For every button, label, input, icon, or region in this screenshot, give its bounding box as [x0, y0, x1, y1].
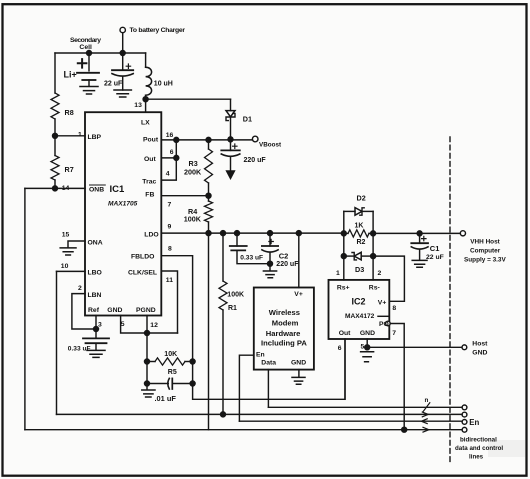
svg-text:LBP: LBP [88, 134, 102, 141]
svg-text:220 uF: 220 uF [244, 157, 267, 164]
op-amp U1 / IC1 MAX1705 box [85, 112, 161, 315]
op-amp U2 / IC2 MAX4172 box [329, 280, 390, 339]
node junction LBP [53, 133, 58, 138]
svg-text:1: 1 [336, 270, 340, 277]
resistor R2 1K [344, 230, 373, 237]
svg-text:5: 5 [121, 321, 125, 328]
capacitor 0.33uF (Ref) [83, 338, 109, 350]
svg-text:Ref: Ref [88, 307, 100, 314]
svg-text:PO: PO [379, 321, 389, 328]
node junction 22uF [120, 51, 125, 56]
resistor R3 200K [205, 140, 213, 196]
svg-text:FB: FB [145, 192, 154, 199]
node junction R3 top [206, 137, 211, 142]
svg-text:LDO: LDO [144, 231, 158, 238]
svg-text:Wireless: Wireless [269, 308, 300, 317]
wire LBO line B [57, 413, 463, 415]
svg-text:n: n [425, 397, 429, 404]
svg-text:5: 5 [361, 343, 365, 350]
wire pin14 ONB [25, 187, 85, 189]
wire ONB left rail down [24, 188, 26, 429]
watermark box [488, 440, 525, 457]
inductor L1 10uH [146, 53, 152, 99]
wire Rs+ pin1 [343, 256, 345, 280]
svg-text:Trac: Trac [142, 178, 156, 185]
node junction cap .01 right [190, 381, 195, 386]
wire pin2 LBN [72, 294, 96, 329]
svg-text:En: En [469, 418, 479, 427]
svg-text:2: 2 [378, 270, 382, 277]
capacitor C1 22uF [411, 233, 428, 260]
wire pin10 LBO [57, 270, 86, 272]
resistor R8 [51, 53, 59, 136]
svg-text:6: 6 [170, 149, 174, 156]
node terminal host GND [462, 345, 467, 350]
svg-text:.01 uF: .01 uF [155, 394, 177, 403]
svg-text:200K: 200K [184, 168, 202, 177]
svg-text:0.33 uF: 0.33 uF [240, 255, 263, 262]
node terminal line B [462, 412, 467, 417]
svg-text:6: 6 [338, 345, 342, 352]
wire pin6 Out [161, 157, 176, 159]
svg-text:14: 14 [62, 185, 70, 192]
node junction IC2 GND [365, 345, 370, 350]
ground C2 [263, 271, 276, 278]
svg-text:100K: 100K [184, 214, 202, 223]
node junction C2/0.33uF [268, 261, 273, 266]
node junction D3 left [341, 254, 346, 259]
node: To battery Charger terminal [120, 27, 125, 32]
svg-text:12: 12 [150, 322, 158, 329]
wire top battery rail [55, 52, 146, 54]
node junction R1 bottom [221, 412, 226, 417]
svg-text:Including PA: Including PA [261, 339, 307, 348]
wire pin3 Ref [95, 316, 97, 339]
svg-text:IC1: IC1 [110, 184, 126, 195]
svg-text:En: En [256, 351, 265, 358]
svg-text:Host: Host [472, 340, 488, 347]
capacitor .01uF [147, 378, 193, 389]
svg-text:Rs+: Rs+ [337, 285, 350, 292]
svg-text:V+: V+ [294, 291, 303, 298]
svg-text:1K: 1K [355, 223, 364, 230]
node junction Out [174, 155, 179, 160]
svg-text:bidirectional: bidirectional [460, 437, 497, 444]
svg-text:0.33 uF: 0.33 uF [68, 346, 91, 353]
svg-text:R8: R8 [65, 108, 74, 117]
svg-text:GND: GND [472, 350, 487, 357]
node junction ONB [53, 186, 58, 191]
svg-text:10K: 10K [164, 351, 177, 358]
wire pin15 ONA [68, 241, 85, 248]
diode D1 [226, 99, 235, 139]
wire R4 node down to bottom rail [208, 233, 210, 430]
wire pin1 LBP [55, 135, 85, 137]
svg-text:V+: V+ [378, 299, 387, 306]
svg-text:Pout: Pout [143, 137, 159, 144]
svg-text:IC2: IC2 [352, 296, 366, 306]
svg-text:15: 15 [62, 231, 70, 238]
svg-text:VHH Host: VHH Host [470, 238, 500, 245]
node junction GND/PGND/CLK [145, 331, 150, 336]
svg-text:C2: C2 [279, 252, 289, 261]
svg-text:11: 11 [166, 277, 173, 284]
node junction C2 top [268, 231, 273, 236]
node junction R2 right [371, 231, 376, 236]
svg-text:13: 13 [134, 102, 142, 109]
wire D3 node to V+ pin8 [373, 256, 404, 301]
node junction R5 left [145, 359, 150, 364]
capacitor 0.33uF (LDO) [230, 233, 270, 264]
svg-text:FBLDO: FBLDO [131, 254, 154, 261]
node junction R4/LDO [206, 231, 211, 236]
wire GND pin5 [366, 339, 368, 347]
wire pin11 CLK/SEL [161, 271, 177, 333]
svg-text:Rs-: Rs- [369, 285, 380, 292]
wire LX to D1 [146, 98, 231, 100]
svg-text:D3: D3 [355, 265, 364, 274]
svg-text:MAX4172: MAX4172 [345, 313, 375, 320]
svg-text:3: 3 [98, 322, 102, 329]
node terminal VHH [460, 231, 465, 236]
svg-text:16: 16 [166, 132, 174, 139]
resistor R7 [51, 136, 59, 189]
node junction Pout [174, 137, 179, 142]
capacitor 22uF [112, 53, 133, 90]
svg-text:R2: R2 [357, 239, 366, 246]
svg-text:22 uF: 22 uF [426, 254, 444, 261]
wire pin8 FBLDO [161, 256, 345, 400]
svg-text:D1: D1 [243, 114, 252, 123]
svg-text:VBoost: VBoost [259, 141, 282, 148]
pin dash inside IC2 [378, 315, 388, 317]
arrow right line B [422, 412, 428, 417]
svg-text:9: 9 [168, 224, 172, 231]
wire pin16 Pout to VBoost [161, 139, 251, 141]
wire modem Data down [267, 370, 269, 408]
node terminal En [462, 420, 467, 425]
svg-text:22 uF: 22 uF [104, 81, 123, 88]
wire LBO rail down [56, 271, 58, 414]
resistor R4 100K [205, 196, 213, 233]
wire pin7 FB [161, 195, 208, 197]
node junction battery [87, 51, 92, 56]
svg-text:R1: R1 [228, 305, 237, 312]
capacitor C2 220uF [262, 233, 278, 271]
svg-text:LBO: LBO [88, 270, 102, 277]
svg-text:Li+: Li+ [64, 70, 77, 80]
wire LDO rail right of R2 [373, 232, 460, 234]
wire En line C [239, 420, 462, 422]
diode D2 [344, 208, 373, 234]
svg-text:Secondary: Secondary [70, 37, 101, 44]
overline ONB [89, 184, 106, 186]
ground modem [292, 377, 305, 384]
ground IC2 [361, 352, 374, 362]
svg-text:GND: GND [291, 359, 306, 366]
wire pin9 LDO rail [161, 232, 343, 234]
wire pin5 GND [121, 316, 178, 334]
ground Ref cap [87, 350, 105, 357]
wire pin13 into IC1 [145, 99, 147, 112]
svg-text:8: 8 [168, 245, 172, 252]
wire pin4 Trac [161, 140, 176, 180]
node junction 0.33uF top [235, 231, 240, 236]
svg-text:100K: 100K [227, 292, 244, 299]
node junction PO rail [402, 427, 407, 432]
svg-text:4: 4 [166, 170, 170, 177]
svg-text:1: 1 [78, 132, 82, 139]
svg-text:LBN: LBN [88, 292, 102, 299]
svg-text:GND: GND [107, 307, 122, 314]
ground battery [80, 87, 98, 95]
svg-text:To battery Charger: To battery Charger [130, 27, 186, 34]
svg-text:7: 7 [168, 201, 172, 208]
diode D3 [344, 233, 373, 260]
wire PO pin7 down [390, 324, 404, 430]
node junction C1 [417, 231, 422, 236]
svg-text:data and control: data and control [455, 445, 503, 452]
svg-text:LX: LX [141, 119, 150, 126]
svg-text:CLK/SEL: CLK/SEL [128, 270, 157, 277]
svg-text:ONB: ONB [89, 186, 104, 193]
node junction R2 left [341, 231, 346, 236]
node junction cap .01 left [145, 381, 150, 386]
svg-text:D2: D2 [357, 193, 366, 202]
wire host GND [367, 346, 462, 348]
svg-text:Hardware: Hardware [266, 329, 301, 338]
svg-text:R5: R5 [168, 369, 177, 376]
resistor R5 10K [147, 358, 193, 365]
wire ONB line D [25, 429, 462, 431]
node junction D1/Vboost [228, 137, 233, 142]
ground C1 [412, 260, 427, 267]
pin bubble PO [386, 321, 391, 326]
node terminal line D [462, 427, 467, 432]
svg-text:8: 8 [392, 305, 396, 312]
wire modem V+ [298, 233, 300, 287]
svg-text:10 uH: 10 uH [154, 81, 173, 88]
svg-text:ONA: ONA [88, 239, 103, 246]
arrow right line D [423, 427, 429, 432]
wire Rs- pin2 [372, 256, 374, 280]
ground PGND [142, 390, 155, 397]
node junction FB [206, 193, 211, 198]
svg-text:lines: lines [469, 453, 484, 460]
node junction R1 top [221, 231, 226, 236]
arrow left line C [421, 419, 427, 424]
svg-text:7: 7 [392, 330, 396, 337]
svg-text:R7: R7 [65, 165, 74, 174]
block modem box [254, 288, 314, 370]
svg-text:220 uF: 220 uF [276, 261, 299, 268]
svg-text:10: 10 [61, 263, 69, 270]
wire data line A [268, 406, 462, 408]
node terminal data [462, 405, 467, 410]
svg-text:Out: Out [339, 330, 351, 337]
bus slash n [423, 403, 430, 412]
node junction modem V+ [296, 231, 301, 236]
svg-text:Modem: Modem [272, 319, 299, 328]
svg-text:Computer: Computer [470, 247, 501, 254]
wire terminal to top rail [122, 33, 124, 53]
svg-text:Out: Out [144, 156, 156, 163]
resistor R1 100K [219, 233, 227, 414]
node junction Ref/LBN [94, 327, 99, 332]
capacitor 220uF (Vboost) [221, 139, 240, 178]
svg-text:GND: GND [360, 330, 375, 337]
ground ONA [60, 248, 76, 255]
svg-text:C1: C1 [430, 244, 440, 253]
ground 22uF [114, 90, 131, 97]
svg-text:Cell: Cell [79, 44, 92, 51]
svg-text:2: 2 [78, 285, 82, 292]
wire modem En [239, 355, 253, 421]
wire Out pin6 [344, 339, 346, 399]
node junction D3 right [371, 254, 376, 259]
node terminal VBoost [252, 136, 258, 142]
node junction R5 right [190, 359, 195, 364]
svg-text:PGND: PGND [136, 307, 156, 314]
svg-text:Data: Data [261, 359, 276, 366]
wire pin12 PGND down [146, 316, 148, 390]
svg-text:Supply = 3.3V: Supply = 3.3V [464, 256, 506, 263]
svg-text:MAX1705: MAX1705 [108, 200, 138, 207]
node junction pin13 [143, 97, 148, 102]
battery Li+ cell [77, 53, 99, 86]
wire modem GND [298, 370, 300, 378]
dashed host boundary [449, 137, 451, 463]
